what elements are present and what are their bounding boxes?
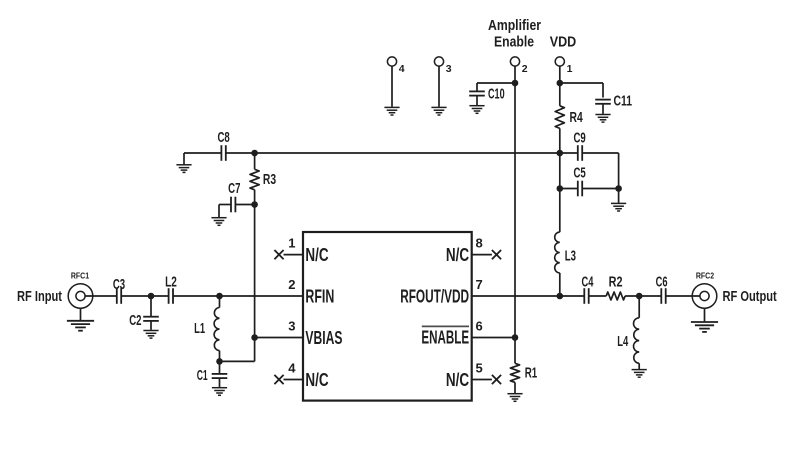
svg-text:C9: C9 (573, 131, 585, 147)
svg-text:5: 5 (476, 361, 483, 376)
svg-text:R3: R3 (263, 172, 276, 188)
svg-text:C2: C2 (129, 313, 141, 329)
svg-text:1: 1 (288, 236, 295, 251)
svg-text:C11: C11 (614, 94, 633, 110)
svg-text:C10: C10 (488, 87, 505, 103)
svg-text:L3: L3 (565, 248, 576, 264)
svg-text:N/C: N/C (305, 245, 328, 265)
svg-text:3: 3 (446, 63, 452, 75)
svg-text:L4: L4 (617, 334, 628, 350)
svg-text:Enable: Enable (494, 35, 534, 51)
svg-text:4: 4 (288, 361, 296, 376)
svg-text:C3: C3 (113, 277, 125, 293)
svg-text:RF Input: RF Input (17, 289, 62, 305)
svg-text:RFC1: RFC1 (71, 271, 90, 281)
svg-text:C1: C1 (197, 368, 208, 384)
svg-text:R4: R4 (570, 110, 583, 126)
svg-text:ENABLE: ENABLE (421, 327, 469, 347)
svg-text:C6: C6 (656, 275, 668, 291)
svg-text:VBIAS: VBIAS (305, 328, 342, 348)
svg-text:C8: C8 (217, 130, 229, 146)
svg-text:R1: R1 (525, 366, 538, 382)
svg-text:R2: R2 (609, 275, 623, 291)
svg-text:RFC2: RFC2 (696, 271, 715, 281)
svg-text:RFIN: RFIN (305, 286, 334, 306)
svg-text:1: 1 (567, 63, 573, 75)
svg-text:4: 4 (399, 63, 405, 75)
svg-text:L1: L1 (194, 321, 205, 337)
svg-text:8: 8 (476, 236, 483, 251)
svg-text:2: 2 (522, 63, 528, 75)
svg-text:2: 2 (288, 277, 295, 292)
svg-text:L2: L2 (165, 275, 177, 291)
svg-text:RF Output: RF Output (723, 289, 777, 305)
svg-text:Amplifier: Amplifier (488, 18, 541, 34)
svg-text:7: 7 (476, 277, 483, 292)
svg-text:C4: C4 (582, 275, 594, 291)
svg-text:VDD: VDD (550, 35, 577, 51)
svg-text:N/C: N/C (305, 370, 328, 390)
svg-text:3: 3 (288, 319, 295, 334)
svg-text:RFOUT/VDD: RFOUT/VDD (400, 286, 469, 306)
svg-text:N/C: N/C (446, 370, 469, 390)
svg-text:6: 6 (476, 319, 483, 334)
svg-text:C7: C7 (228, 181, 240, 197)
svg-text:C5: C5 (573, 165, 585, 181)
svg-text:N/C: N/C (446, 245, 469, 265)
